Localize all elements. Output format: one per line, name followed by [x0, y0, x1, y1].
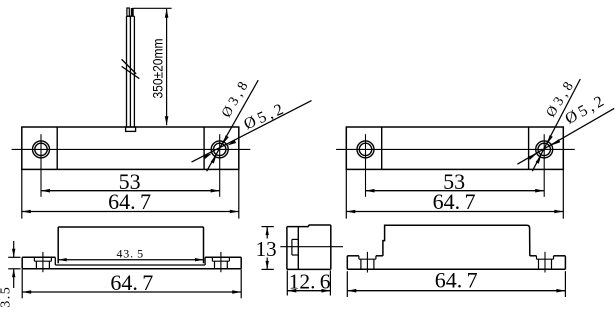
svg-text:Ø5,2: Ø5,2	[241, 100, 288, 134]
svg-text:64. 7: 64. 7	[433, 189, 476, 214]
svg-text:64. 7: 64. 7	[435, 268, 478, 293]
svg-text:64. 7: 64. 7	[110, 270, 153, 295]
svg-text:64. 7: 64. 7	[108, 189, 151, 214]
svg-text:3.5: 3.5	[0, 286, 13, 308]
svg-text:13: 13	[256, 237, 277, 261]
svg-text:12. 6: 12. 6	[289, 269, 331, 293]
svg-text:43. 5: 43. 5	[116, 247, 143, 261]
svg-text:350±20mm: 350±20mm	[149, 39, 165, 99]
